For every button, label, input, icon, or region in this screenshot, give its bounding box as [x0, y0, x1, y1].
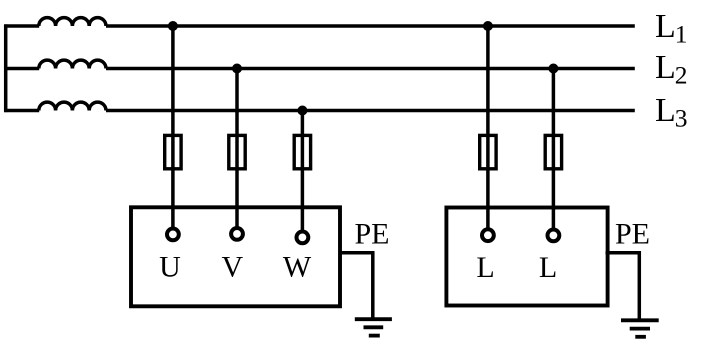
wire: PE lead from right box to ground: [606, 253, 640, 320]
ground symbol (left): bar 3: [369, 334, 380, 338]
junction node on L1 at x=173: [168, 21, 178, 31]
inductor coil on line L1: [39, 18, 106, 26]
svg-text:W: W: [283, 251, 312, 284]
wire: drop from L1 to terminal U: [171, 26, 175, 228]
fuse FU4: [480, 135, 496, 168]
wire: drop from L1 to terminal L (left): [486, 26, 490, 228]
svg-text:L: L: [476, 251, 494, 284]
fuse FU3: [294, 135, 310, 168]
wire: L3 left stub from bus to coil: [4, 109, 39, 113]
junction node on L2 at x=237: [232, 64, 242, 74]
svg-text:L1: L1: [655, 8, 688, 49]
load box: single-phase load (L L): [446, 208, 607, 306]
junction node on L3 at x=302: [297, 106, 307, 116]
wire: line L2: [106, 67, 635, 71]
fuse FU5: [545, 135, 561, 168]
terminal V: [231, 228, 243, 240]
ground symbol (left): bar 1: [355, 317, 392, 321]
inductor coil on line L2: [39, 60, 106, 68]
terminal U: [167, 229, 179, 241]
inductor coil on line L3: [39, 102, 106, 110]
fuse FU1: [165, 135, 181, 168]
terminal L (left): [482, 229, 494, 241]
wire: line L3: [106, 109, 635, 113]
svg-text:V: V: [221, 251, 243, 284]
junction node on L1 at x=488: [483, 21, 493, 31]
svg-text:PE: PE: [355, 218, 390, 251]
terminal L (right): [548, 230, 560, 242]
svg-text:L: L: [539, 251, 557, 284]
svg-text:L2: L2: [655, 49, 688, 90]
wire: drop from L3 to terminal W: [301, 111, 305, 231]
wire: L1 left stub from bus to coil: [4, 24, 39, 28]
svg-text:PE: PE: [615, 218, 650, 251]
wire: left vertical bus: [4, 24, 8, 112]
fuse FU2: [229, 135, 245, 168]
wire: L2 left stub from bus to coil: [4, 67, 39, 71]
wire: drop from L2 to terminal V: [235, 69, 239, 228]
junction node on L2 at x=553: [548, 64, 558, 74]
ground symbol (right): bar 3: [635, 335, 646, 339]
ground symbol (left): bar 2: [364, 325, 384, 329]
ground symbol (right): bar 2: [630, 327, 650, 331]
wire: PE lead from left box to ground: [339, 253, 373, 320]
svg-text:L3: L3: [655, 92, 688, 133]
wire: line L1: [106, 24, 635, 28]
terminal W: [297, 232, 309, 244]
ground symbol (right): bar 1: [621, 318, 659, 322]
svg-text:U: U: [159, 251, 181, 284]
load box: three-phase motor (U V W): [131, 207, 340, 306]
wire: drop from L2 to terminal L (right): [552, 69, 556, 229]
